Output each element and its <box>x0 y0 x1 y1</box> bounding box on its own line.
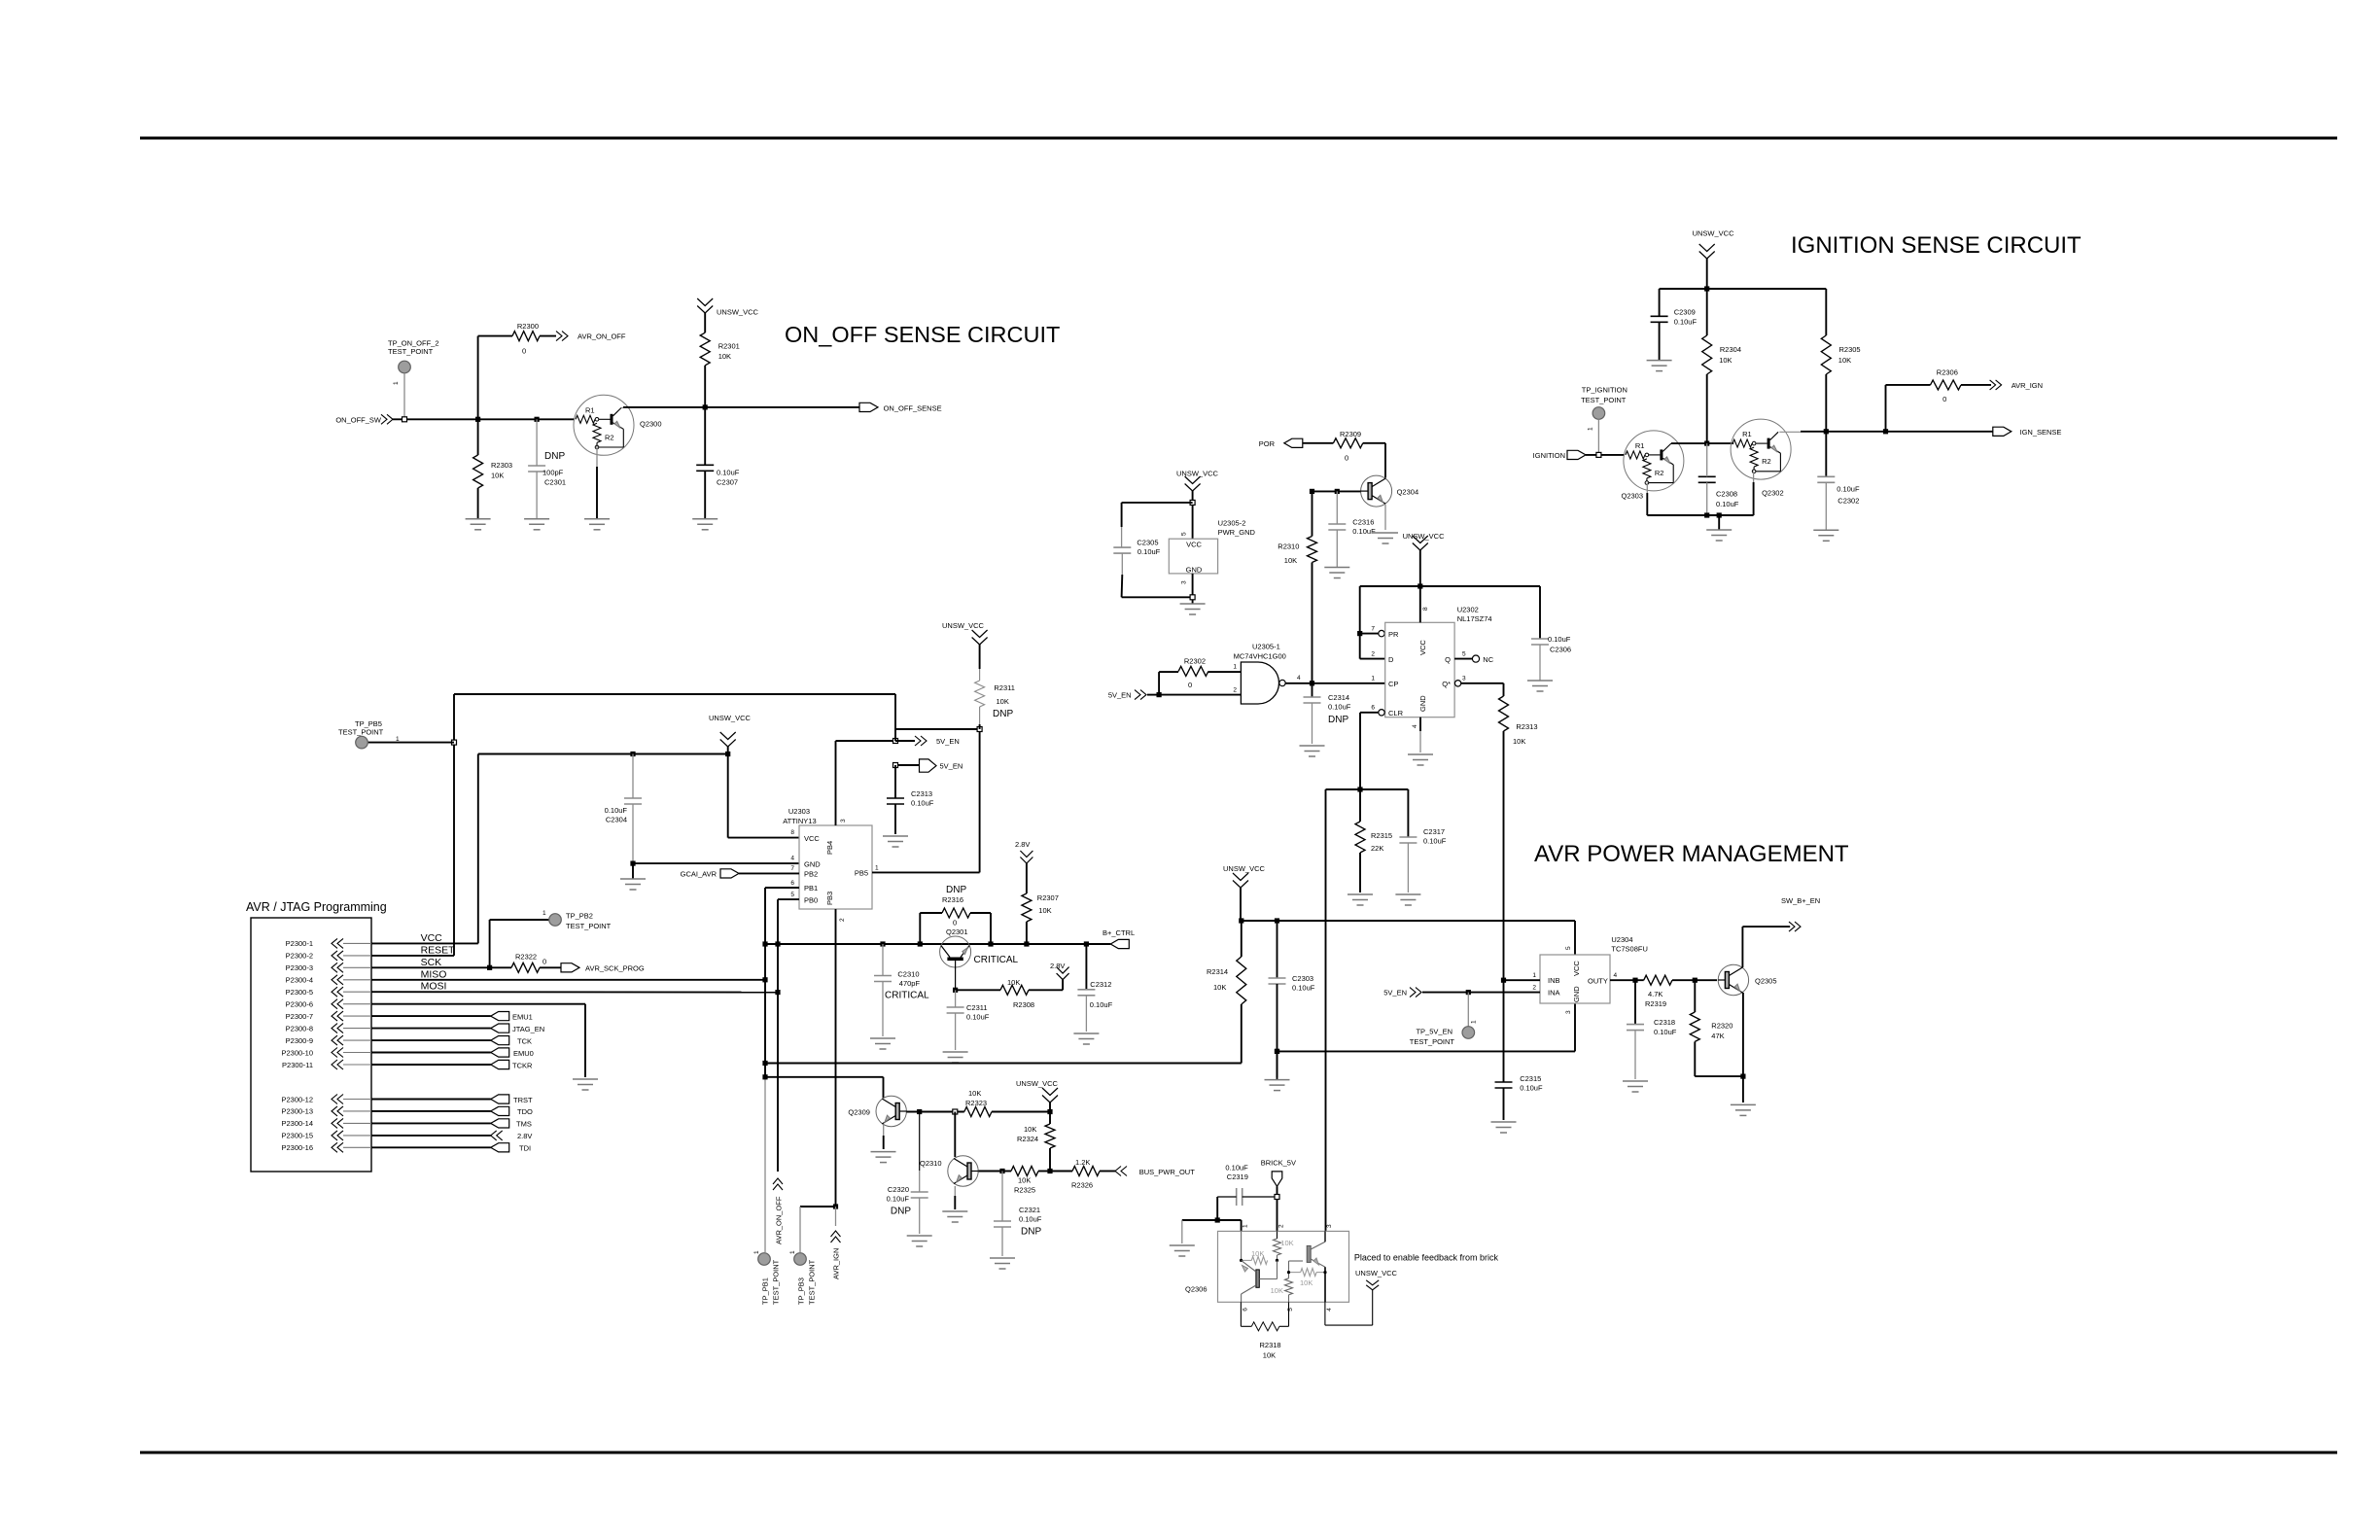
svg-text:P2300-3: P2300-3 <box>286 963 313 972</box>
svg-text:C2304: C2304 <box>606 816 627 824</box>
svg-text:R2326: R2326 <box>1071 1181 1093 1190</box>
svg-text:0.10uF: 0.10uF <box>887 1195 910 1204</box>
svg-text:UNSW_VCC: UNSW_VCC <box>1223 864 1266 873</box>
svg-text:C2312: C2312 <box>1090 980 1111 989</box>
wire pin3 loop <box>1122 574 1193 604</box>
svg-text:CLR: CLR <box>1388 709 1404 717</box>
svg-text:C2308: C2308 <box>1716 490 1737 499</box>
opto internal input transistor <box>1242 1260 1277 1302</box>
svg-text:0.10uF: 0.10uF <box>717 469 740 477</box>
wire PB5 pin <box>872 729 980 872</box>
svg-text:EMU0: EMU0 <box>513 1049 534 1058</box>
junction C2305 top tap <box>1190 500 1195 505</box>
rail y603 <box>1360 585 1540 587</box>
pin P2300-8 <box>286 1024 371 1033</box>
ground under U2302 <box>1408 754 1433 765</box>
wire y750 to R2311 <box>895 728 980 730</box>
NAND output wire <box>1285 682 1385 684</box>
svg-text:5V_EN: 5V_EN <box>936 737 960 746</box>
IC U2304 box <box>1540 935 1648 1003</box>
junction Q2304 base / R2310 <box>1310 489 1314 494</box>
power UNSW_VCC (U2304 rail) <box>1223 864 1266 888</box>
transistor Q2301 CRITICAL <box>940 927 1019 990</box>
wire P2300-2 RESET <box>371 944 455 956</box>
pin 5 label U2305-2 <box>1181 532 1188 536</box>
svg-text:AVR_ON_OFF: AVR_ON_OFF <box>775 1196 784 1244</box>
junction TP_PB5 <box>452 740 457 745</box>
wire up to R2300 <box>477 336 479 420</box>
junction UNSW_VCC/C2307 node <box>703 404 708 409</box>
svg-text:SCK: SCK <box>421 957 442 968</box>
pin P2300-3 <box>286 962 371 972</box>
ground under R2303 <box>466 519 491 530</box>
pin P2300-2 <box>286 951 371 961</box>
svg-text:Q2310: Q2310 <box>920 1159 942 1168</box>
junction Q2301 emitter node <box>953 988 958 993</box>
wire BRICK_5V down <box>1277 1186 1278 1231</box>
Q2309 base wire <box>906 1111 963 1113</box>
junction 5V_EN node <box>893 739 898 744</box>
svg-text:U2304: U2304 <box>1611 935 1632 944</box>
svg-text:C2315: C2315 <box>1520 1074 1541 1083</box>
junction emitter/R2320 <box>1740 1074 1745 1079</box>
transistor Q2302 (digital) <box>1731 419 1791 497</box>
svg-text:1: 1 <box>1471 1020 1478 1024</box>
svg-text:100pF: 100pF <box>542 469 564 477</box>
svg-text:TP_5V_EN: TP_5V_EN <box>1416 1028 1452 1036</box>
ground under C2301 <box>524 519 549 530</box>
svg-text:UNSW_VCC: UNSW_VCC <box>1693 228 1735 237</box>
svg-text:GND: GND <box>1572 986 1581 1002</box>
junction C2301 tap <box>535 417 540 422</box>
power 2.8V (R2308) <box>1050 962 1069 990</box>
svg-text:1.2K: 1.2K <box>1075 1158 1090 1167</box>
ground under C2321 <box>990 1258 1015 1269</box>
svg-text:ON_OFF SENSE CIRCUIT: ON_OFF SENSE CIRCUIT <box>785 322 1060 347</box>
svg-text:3: 3 <box>1565 1010 1572 1014</box>
svg-text:10K: 10K <box>968 1089 981 1098</box>
flag POR <box>1259 438 1303 448</box>
net arrow AVR_ON_OFF (up) <box>773 1178 784 1244</box>
net arrow AVR_IGN <box>1990 380 2043 390</box>
svg-text:0.10uF: 0.10uF <box>1548 635 1571 644</box>
test point TP_5V_EN <box>1410 993 1478 1047</box>
power UNSW_VCC (ATTINY) <box>709 714 752 754</box>
flag GCAI_AVR <box>681 869 799 879</box>
ground under C2311 <box>943 1052 968 1063</box>
junction BRICK/C2319 <box>1275 1195 1279 1200</box>
note Placed to enable feedback from brick <box>1354 1253 1499 1263</box>
svg-text:0.10uF: 0.10uF <box>1328 703 1351 712</box>
ground under C2314 <box>1300 746 1325 756</box>
capacitor C2305 <box>1113 503 1160 597</box>
svg-text:TP_IGNITION: TP_IGNITION <box>1582 385 1627 394</box>
svg-text:5: 5 <box>1181 532 1188 536</box>
svg-text:P2300-1: P2300-1 <box>286 939 313 948</box>
resistor R2301 <box>700 313 740 407</box>
junction MOSI/PB0 <box>775 990 780 995</box>
svg-text:10K: 10K <box>1300 1278 1312 1287</box>
svg-text:JTAG_EN: JTAG_EN <box>512 1025 544 1033</box>
IC U2302 box <box>1385 605 1492 717</box>
svg-text:10K: 10K <box>1271 1286 1283 1295</box>
svg-text:0.10uF: 0.10uF <box>1520 1084 1543 1093</box>
svg-text:R2: R2 <box>605 433 614 441</box>
svg-text:Q2303: Q2303 <box>1622 492 1644 501</box>
svg-text:R2: R2 <box>1655 469 1664 477</box>
svg-text:Q: Q <box>1445 655 1451 664</box>
flag TDO <box>371 1106 533 1116</box>
U2304 pin numbers <box>1532 946 1617 1014</box>
pin P2300-5 <box>286 987 371 997</box>
svg-text:UNSW_VCC: UNSW_VCC <box>1355 1269 1398 1277</box>
svg-text:UNSW_VCC: UNSW_VCC <box>1016 1079 1059 1088</box>
svg-text:IGN_SENSE: IGN_SENSE <box>2020 428 2062 437</box>
svg-text:1: 1 <box>753 1250 760 1254</box>
resistor R2309 <box>1333 430 1362 463</box>
svg-text:10K: 10K <box>997 697 1009 706</box>
wire C2319 left to ground <box>1182 1197 1217 1243</box>
capacitor C2311 <box>947 990 990 1050</box>
svg-text:R2307: R2307 <box>1037 893 1059 902</box>
svg-text:R2315: R2315 <box>1371 831 1392 840</box>
svg-text:5V_EN: 5V_EN <box>1108 691 1132 700</box>
svg-text:R2308: R2308 <box>1013 1000 1034 1009</box>
wire IGNITION to Q2303 <box>1586 454 1625 456</box>
svg-text:R1: R1 <box>1635 441 1645 450</box>
svg-text:1: 1 <box>1588 427 1594 431</box>
top border line <box>140 137 2337 140</box>
svg-text:C2316: C2316 <box>1352 518 1374 527</box>
C2304 ground stub <box>632 863 634 879</box>
svg-text:IGNITION: IGNITION <box>1533 451 1565 460</box>
ground under Q2300 <box>584 519 610 530</box>
svg-text:C2307: C2307 <box>717 477 738 486</box>
junction GND loop / ground stub <box>1275 1049 1279 1054</box>
NAND pin numbers <box>1233 664 1301 694</box>
resistor R2308 <box>956 978 1064 1009</box>
flag B+_CTRL <box>1102 928 1135 949</box>
svg-text:R2324: R2324 <box>1017 1135 1038 1143</box>
svg-text:MC74VHC1G00: MC74VHC1G00 <box>1234 651 1286 660</box>
title IGNITION SENSE CIRCUIT <box>1791 232 2082 259</box>
junction 5V_EN split <box>1157 692 1162 697</box>
wire TP_PB3 branch <box>800 1207 836 1252</box>
ground under C2315 <box>1491 1122 1517 1133</box>
svg-text:UNSW_VCC: UNSW_VCC <box>709 714 752 722</box>
svg-text:4: 4 <box>1297 675 1301 682</box>
pin P2300-14 <box>281 1118 371 1128</box>
wire R2320 to emitter <box>1695 1075 1743 1077</box>
svg-text:R2303: R2303 <box>491 461 512 470</box>
wire P2300-1 VCC <box>371 932 478 944</box>
svg-text:OUTY: OUTY <box>1588 977 1608 986</box>
UNSW_VCC rail (ATTINY) <box>478 753 728 755</box>
svg-text:D: D <box>1388 655 1394 664</box>
pin P2300-12 <box>281 1095 371 1104</box>
capacitor C2315 <box>1495 980 1543 1120</box>
junction PB3/TP_PB3 <box>833 1204 838 1208</box>
junction R2316 right <box>988 941 993 946</box>
capacitor C2320 DNP <box>887 1112 928 1235</box>
ground under R2315 <box>1347 894 1373 905</box>
svg-text:GND: GND <box>1186 566 1203 575</box>
wire PB1 net to R2314 <box>765 1063 1242 1065</box>
svg-text:R2309: R2309 <box>1340 430 1361 438</box>
svg-text:R2322: R2322 <box>515 952 537 961</box>
wire GND pin4 <box>633 862 799 864</box>
input arrow 5V_EN (INA) <box>1383 988 1421 997</box>
svg-text:TCK: TCK <box>517 1036 532 1045</box>
svg-text:Placed to enable feedback from: Placed to enable feedback from brick <box>1354 1253 1499 1263</box>
svg-text:INA: INA <box>1548 989 1560 997</box>
junction Q2303 collector <box>1704 441 1709 446</box>
IC U2305-2 PWR_GND box <box>1169 519 1255 575</box>
svg-text:NC: NC <box>1483 655 1493 664</box>
svg-text:MISO: MISO <box>421 968 447 980</box>
wire net to C2319 (y1093 from R2314) <box>1241 1063 1242 1065</box>
svg-text:1: 1 <box>396 736 400 743</box>
svg-text:P2300-13: P2300-13 <box>281 1107 313 1116</box>
power 2.8V (R2307) <box>1015 840 1032 863</box>
svg-text:2: 2 <box>1532 985 1536 992</box>
wire PB1 net to Q2309 <box>765 1077 884 1098</box>
wire PB3 vertical <box>835 909 837 1207</box>
svg-text:5: 5 <box>1565 946 1572 950</box>
wire pin1 link <box>1217 1220 1241 1231</box>
svg-text:Q2300: Q2300 <box>640 420 662 429</box>
svg-text:C2313: C2313 <box>911 789 932 798</box>
svg-text:3: 3 <box>1462 676 1466 682</box>
wire PR/D vertical <box>1360 586 1385 659</box>
junction MISO/PB1 <box>762 977 767 982</box>
svg-text:R2310: R2310 <box>1277 542 1299 550</box>
junction rail/C2303 <box>1275 918 1279 923</box>
wire VCC pin8 <box>728 754 799 838</box>
VCC net vertical <box>477 754 479 944</box>
flag EMU1 <box>371 1012 533 1022</box>
capacitor C2312 <box>1077 944 1112 1032</box>
svg-text:10K: 10K <box>491 472 504 480</box>
svg-text:TDO: TDO <box>517 1107 533 1116</box>
svg-text:1: 1 <box>1371 676 1375 682</box>
capacitor C2319 <box>1217 1164 1277 1206</box>
wire GND loop y1082 <box>1277 1050 1576 1052</box>
svg-text:TP_PB1: TP_PB1 <box>761 1277 770 1305</box>
opto pin numbers bottom <box>1242 1308 1334 1312</box>
ground under C2313 <box>883 836 908 847</box>
svg-text:R2305: R2305 <box>1839 345 1861 354</box>
flag ON_OFF_SENSE <box>859 402 942 412</box>
svg-text:POR: POR <box>1259 439 1276 448</box>
svg-text:Q2304: Q2304 <box>1397 487 1419 496</box>
Q2305 emitter wire <box>1742 993 1744 1102</box>
svg-text:22K: 22K <box>1371 844 1383 853</box>
capacitor C2310 CRITICAL <box>874 944 929 1036</box>
svg-text:5: 5 <box>1462 651 1466 658</box>
capacitor C2317 <box>1399 789 1446 892</box>
svg-text:PB4: PB4 <box>825 841 834 855</box>
svg-text:0.10uF: 0.10uF <box>605 806 628 815</box>
junction SCK/R2322 <box>487 965 492 970</box>
svg-text:DNP: DNP <box>544 451 565 462</box>
net arrow BUS_PWR_OUT <box>1115 1167 1195 1176</box>
resistor R2325 <box>1000 1167 1050 1195</box>
svg-text:P2300-15: P2300-15 <box>281 1132 313 1140</box>
resistor R2322 <box>490 952 561 972</box>
opto module Q2306 box <box>1185 1231 1349 1302</box>
junction R2300/R2303 tap <box>475 417 480 422</box>
PR pin wire with bubble <box>1360 630 1385 636</box>
svg-text:GND: GND <box>1418 695 1427 712</box>
ground under C2309 <box>1647 361 1672 371</box>
svg-text:C2305: C2305 <box>1137 539 1158 547</box>
flag TRST <box>371 1095 533 1104</box>
svg-text:10K: 10K <box>1007 978 1020 987</box>
svg-text:47K: 47K <box>1711 1032 1724 1040</box>
junction R2315 top <box>1357 787 1362 791</box>
svg-text:P2300-5: P2300-5 <box>286 988 313 997</box>
resistor R2324 <box>1017 1112 1055 1172</box>
Q2304 emitter wire <box>1384 505 1386 530</box>
wire pin5 stub U2304 <box>1574 921 1576 955</box>
GND pin4 stub <box>1419 717 1421 752</box>
svg-text:R2302: R2302 <box>1184 657 1206 666</box>
svg-text:AVR_ON_OFF: AVR_ON_OFF <box>577 332 626 341</box>
resistor R2319 <box>1610 975 1717 1008</box>
svg-text:R2313: R2313 <box>1516 722 1537 731</box>
junction R2324/R2326 <box>1047 1169 1052 1173</box>
svg-text:3: 3 <box>1181 580 1188 584</box>
svg-text:VCC: VCC <box>804 834 820 843</box>
junction AVR_IGN tap <box>1883 429 1888 434</box>
junction 5V_EN flag <box>893 763 898 768</box>
wire C2319 link <box>1241 1063 1242 1065</box>
svg-text:0.10uF: 0.10uF <box>1423 837 1447 846</box>
ground under C2303 <box>1265 1080 1290 1091</box>
Q2309 emitter wire <box>883 1125 885 1149</box>
svg-text:R2301: R2301 <box>718 342 740 351</box>
wire POR to R2309 <box>1303 442 1334 444</box>
junction R2320 tap <box>1693 978 1697 983</box>
VCC pin8 stub <box>1419 586 1421 622</box>
svg-text:0.10uF: 0.10uF <box>966 1013 990 1022</box>
svg-text:C2310: C2310 <box>897 970 919 979</box>
Q2303 collector link <box>1671 442 1707 444</box>
capacitor C2306 branch <box>1531 586 1571 681</box>
wire ON_OFF_SENSE <box>621 406 859 409</box>
net arrow AVR_ON_OFF <box>556 332 626 341</box>
ground under C2304 <box>620 879 646 890</box>
junction UNSW_VCC corner <box>725 752 730 756</box>
svg-text:ON_OFF_SENSE: ON_OFF_SENSE <box>884 403 942 412</box>
flag 5V_EN out <box>895 759 962 772</box>
test point TP_PB5 <box>338 719 454 749</box>
ground under C2307 <box>692 519 717 530</box>
svg-text:P2300-14: P2300-14 <box>281 1119 313 1128</box>
svg-text:U2305-1: U2305-1 <box>1252 643 1280 651</box>
svg-text:TEST_POINT: TEST_POINT <box>338 728 384 737</box>
test point TP_PB2 branch <box>490 910 612 967</box>
capacitor C2316 <box>1328 491 1376 567</box>
resistor R2320 <box>1690 980 1732 1076</box>
net arrow SW_B+_EN <box>1781 896 1820 931</box>
capacitor C2321 DNP <box>994 1172 1042 1257</box>
pin P2300-13 <box>281 1106 371 1116</box>
title AVR POWER MANAGEMENT <box>1534 841 1849 867</box>
capacitor C2301 DNP <box>528 419 566 519</box>
wire 5V_EN to junction <box>1147 694 1159 696</box>
svg-text:R2320: R2320 <box>1711 1022 1732 1031</box>
test point TP_ON_OFF_2 <box>388 338 439 419</box>
svg-text:U2305-2: U2305-2 <box>1218 519 1246 528</box>
svg-text:TEST_POINT: TEST_POINT <box>1410 1037 1455 1046</box>
pin P2300-10 <box>281 1048 371 1058</box>
U2302 pin numbers <box>1371 607 1466 728</box>
wire to NAND pin2 <box>1159 694 1241 696</box>
svg-text:C2320: C2320 <box>888 1185 909 1194</box>
wire Q2310 collector <box>954 1112 956 1158</box>
wire C2305 top loop <box>1122 502 1193 504</box>
resistor R2314 <box>1207 921 1246 1064</box>
Q2302 collector to IGN_SENSE <box>1779 431 1992 434</box>
svg-text:AVR_IGN: AVR_IGN <box>832 1248 841 1279</box>
junction PB1/line1108 <box>762 1074 767 1079</box>
opto internal 10K resistors right <box>1271 1261 1327 1302</box>
svg-text:R2311: R2311 <box>994 683 1015 692</box>
junction R2305/IGN_SENSE <box>1824 429 1829 434</box>
svg-text:C2317: C2317 <box>1423 827 1445 836</box>
wire INB pin1 <box>1504 979 1541 981</box>
svg-text:Q2305: Q2305 <box>1755 976 1777 985</box>
svg-text:R2306: R2306 <box>1937 367 1958 376</box>
input flag IGNITION <box>1533 450 1586 460</box>
svg-text:TEST_POINT: TEST_POINT <box>388 347 434 356</box>
wire P2300-4 MISO <box>371 968 765 980</box>
svg-text:2: 2 <box>1277 1224 1284 1228</box>
svg-text:AVR_SCK_PROG: AVR_SCK_PROG <box>585 964 645 973</box>
transistor Q2304 <box>1361 475 1419 507</box>
svg-text:PWR_GND: PWR_GND <box>1218 528 1256 537</box>
svg-text:0.10uF: 0.10uF <box>1137 547 1161 556</box>
capacitor C2304 <box>605 754 642 864</box>
U2302 pin texts <box>1388 630 1451 717</box>
svg-text:0: 0 <box>542 957 546 965</box>
svg-text:P2300-2: P2300-2 <box>286 952 313 961</box>
svg-text:10K: 10K <box>1838 356 1851 365</box>
capacitor C2318 <box>1627 980 1677 1079</box>
svg-text:UNSW_VCC: UNSW_VCC <box>1176 469 1219 477</box>
svg-text:ATTINY13: ATTINY13 <box>783 817 816 825</box>
svg-text:ON_OFF_SW: ON_OFF_SW <box>335 415 382 424</box>
junction TP_IGNITION <box>1596 452 1601 457</box>
junction C2304 top <box>630 752 635 756</box>
pin P2300-11 <box>282 1060 371 1069</box>
junction TP_ON_OFF_2 <box>402 417 407 422</box>
svg-text:AVR / JTAG Programming: AVR / JTAG Programming <box>246 900 387 914</box>
svg-text:1: 1 <box>393 381 400 385</box>
svg-text:DNP: DNP <box>946 885 966 895</box>
svg-text:0.10uF: 0.10uF <box>1654 1028 1677 1036</box>
wire P2300-5 MOSI <box>371 981 778 993</box>
svg-text:R2316: R2316 <box>942 895 963 904</box>
svg-text:4: 4 <box>790 856 794 862</box>
resistor R2305 <box>1821 289 1860 432</box>
svg-text:PR: PR <box>1388 630 1399 639</box>
junction rail/PB1 <box>762 941 767 946</box>
svg-text:10K: 10K <box>1284 556 1297 565</box>
wire P2300-3 SCK <box>371 957 490 968</box>
